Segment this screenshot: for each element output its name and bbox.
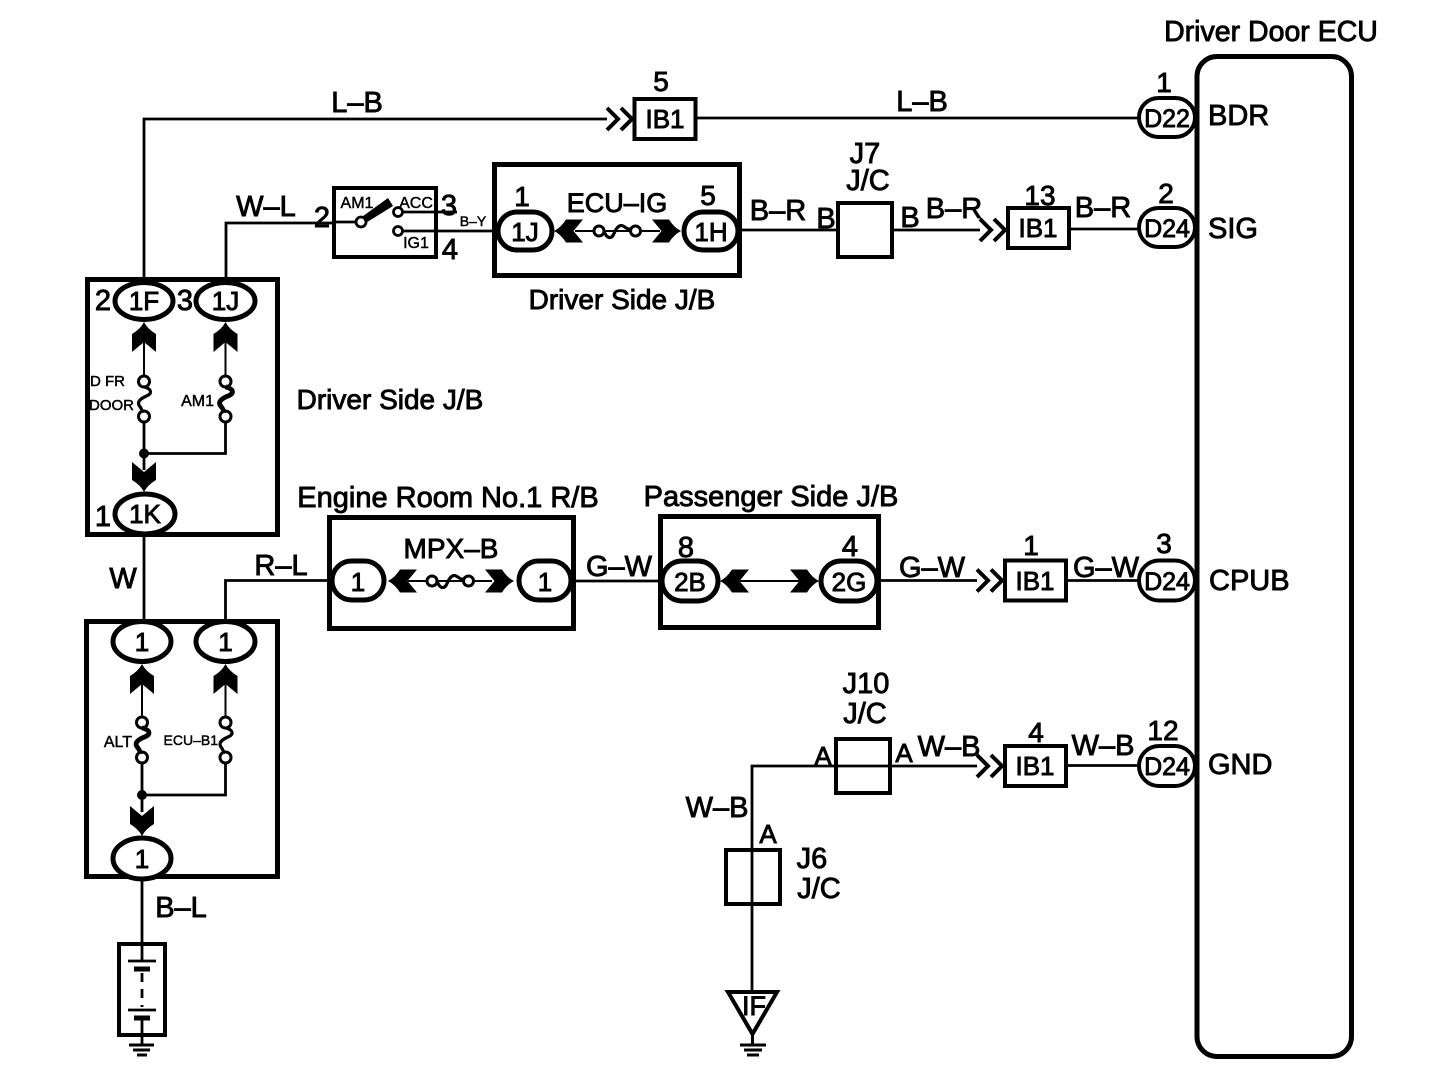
connector 1J xyxy=(498,212,552,250)
fuse ECU-IG arrow right xyxy=(652,220,681,243)
wire through J6 xyxy=(751,850,754,904)
wire ECU-B1 fuse down and left xyxy=(144,763,226,795)
svg-text:1: 1 xyxy=(95,501,111,533)
connector IB1 (1) xyxy=(1005,561,1066,601)
fuse MPX-B arrow right xyxy=(485,570,514,593)
svg-text:A: A xyxy=(814,741,832,771)
wire through J10 xyxy=(836,765,890,768)
wire J6 to shield ground xyxy=(751,904,754,994)
arrow right at 2G xyxy=(790,570,819,593)
connector IB1 (5) xyxy=(635,99,696,139)
connector 1 upper-right xyxy=(196,622,255,662)
svg-text:MPX–B: MPX–B xyxy=(404,533,499,564)
svg-text:1J: 1J xyxy=(511,217,538,247)
battery top lead xyxy=(141,944,144,961)
arrow up under 1F xyxy=(132,322,156,352)
svg-text:2: 2 xyxy=(1158,178,1174,209)
wire B-L xyxy=(141,879,144,944)
arrow up under 1J xyxy=(214,322,238,352)
svg-text:CPUB: CPUB xyxy=(1209,565,1290,597)
svg-text:G–W: G–W xyxy=(899,552,966,584)
ignition switch box xyxy=(334,188,436,257)
connector 1F xyxy=(115,283,173,320)
svg-text:1: 1 xyxy=(135,627,149,657)
wire left arrow to ALT fuse xyxy=(141,669,143,716)
fuse ECU-IG arrow left xyxy=(554,220,583,243)
svg-text:D FR: D FR xyxy=(90,373,125,390)
svg-text:5: 5 xyxy=(700,180,716,211)
svg-text:4: 4 xyxy=(442,234,458,266)
switch lever xyxy=(359,198,393,224)
svg-text:W–L: W–L xyxy=(236,191,296,223)
svg-text:D22: D22 xyxy=(1144,105,1190,133)
svg-text:AM1: AM1 xyxy=(181,393,214,410)
ECU box xyxy=(1197,57,1352,1057)
connector 1 left xyxy=(332,561,384,600)
svg-text:R–L: R–L xyxy=(254,550,307,582)
wire corner to J10 xyxy=(752,766,836,848)
arrow up under left 1 xyxy=(130,664,154,694)
svg-text:1: 1 xyxy=(1023,530,1039,561)
ground stem xyxy=(751,1034,754,1045)
pin 4 wire to 1J xyxy=(403,230,499,233)
wire fuse to junction xyxy=(143,422,146,470)
svg-text:1: 1 xyxy=(538,567,552,597)
fuse AM1 xyxy=(220,376,233,422)
svg-text:1H: 1H xyxy=(694,217,727,247)
battery plate long 1 xyxy=(128,960,156,963)
svg-text:IG1: IG1 xyxy=(403,235,429,252)
battery plate short 1 xyxy=(134,967,150,972)
connector 2B xyxy=(662,561,718,601)
svg-text:BDR: BDR xyxy=(1208,100,1269,132)
wire 1F arrow to fuse xyxy=(143,327,145,377)
svg-text:AM1: AM1 xyxy=(341,195,374,212)
arrow down to 1 xyxy=(130,806,154,836)
svg-text:DOOR: DOOR xyxy=(89,397,134,414)
svg-text:3: 3 xyxy=(1156,528,1172,559)
connector 1K xyxy=(115,494,175,534)
svg-text:ECU–IG: ECU–IG xyxy=(567,188,668,218)
svg-text:1: 1 xyxy=(218,627,232,657)
fuse MPX-B xyxy=(427,575,474,587)
svg-text:A: A xyxy=(895,738,913,768)
Engine Room No.1 R/B box xyxy=(330,518,574,629)
arrow down to 1K xyxy=(132,462,156,492)
wire R-L xyxy=(226,581,333,622)
svg-text:1J: 1J xyxy=(212,286,239,316)
svg-text:J/C: J/C xyxy=(843,698,887,730)
svg-text:B–Y: B–Y xyxy=(460,213,487,229)
fuse ECU-B1 xyxy=(220,717,232,763)
svg-text:SIG: SIG xyxy=(1208,213,1258,245)
wire between 2B and 2G xyxy=(740,580,800,582)
svg-text:D24: D24 xyxy=(1144,753,1190,781)
ground symbol IF xyxy=(740,1045,766,1055)
arrow left at 2B xyxy=(720,570,749,593)
wire right arrow to ECU-B1 fuse xyxy=(225,669,227,716)
svg-text:ECU–B1: ECU–B1 xyxy=(164,732,219,748)
wire L-B left vertical xyxy=(144,119,607,283)
switch wire to pivot xyxy=(334,221,360,224)
wire IB1 to D24 xyxy=(1066,764,1141,767)
svg-text:A: A xyxy=(759,819,777,849)
switch pivot contact xyxy=(356,217,366,227)
svg-text:5: 5 xyxy=(653,66,669,97)
svg-text:B–R: B–R xyxy=(750,195,806,227)
fuse MPX-B wire xyxy=(408,580,492,582)
connector IB1 (13) xyxy=(1008,208,1069,248)
chevron arrow xyxy=(607,108,632,130)
ground symbol battery xyxy=(129,1045,154,1055)
wire to Passenger J/B xyxy=(571,580,662,583)
svg-text:W: W xyxy=(109,563,137,595)
svg-text:D24: D24 xyxy=(1144,568,1190,596)
svg-text:ACC: ACC xyxy=(399,195,433,212)
svg-text:L–B: L–B xyxy=(896,86,948,118)
connector D22 xyxy=(1139,98,1195,137)
wire 1H to J7 xyxy=(738,229,838,232)
svg-text:12: 12 xyxy=(1147,715,1178,746)
svg-text:Engine Room No.1 R/B: Engine Room No.1 R/B xyxy=(297,482,598,514)
svg-text:1: 1 xyxy=(1156,67,1172,98)
connector D24 CPUB xyxy=(1139,561,1195,601)
svg-text:2: 2 xyxy=(95,285,111,317)
wire IB1 to D24 xyxy=(1066,579,1141,582)
svg-text:1: 1 xyxy=(135,844,149,874)
svg-text:Driver Side J/B: Driver Side J/B xyxy=(297,384,484,415)
chevron arrow xyxy=(977,570,1002,592)
svg-text:B–R: B–R xyxy=(1075,192,1131,224)
battery box xyxy=(119,944,165,1035)
svg-text:GND: GND xyxy=(1208,749,1272,781)
connector 1 bottom xyxy=(113,838,171,879)
wire J7 to IB1 xyxy=(892,229,980,232)
svg-text:B–R: B–R xyxy=(926,193,982,225)
wire AM1 fuse down and left xyxy=(146,422,226,454)
svg-text:IF: IF xyxy=(742,991,766,1021)
battery bottom lead xyxy=(141,1018,144,1044)
svg-text:G–W: G–W xyxy=(586,551,653,583)
fuse MPX-B arrow left xyxy=(388,570,417,593)
switch IG1 contact xyxy=(394,227,403,236)
svg-text:3: 3 xyxy=(441,190,457,222)
svg-text:Passenger Side J/B: Passenger Side J/B xyxy=(644,481,899,513)
svg-text:W–B: W–B xyxy=(686,792,749,824)
fuse ECU-IG xyxy=(594,225,641,237)
svg-text:3: 3 xyxy=(177,285,193,317)
svg-text:G–W: G–W xyxy=(1073,552,1140,584)
connector 2G xyxy=(821,561,877,601)
wire ALT fuse to junction xyxy=(141,763,144,812)
connector D24 SIG xyxy=(1139,208,1195,247)
junction block J6 xyxy=(726,850,780,904)
wire W from 1K down xyxy=(143,534,146,623)
svg-text:L–B: L–B xyxy=(331,87,383,119)
svg-text:Driver Side J/B: Driver Side J/B xyxy=(529,284,716,315)
svg-text:1: 1 xyxy=(514,181,530,212)
svg-text:4: 4 xyxy=(842,531,858,563)
svg-text:Driver Door ECU: Driver Door ECU xyxy=(1164,16,1378,48)
wire W-L xyxy=(226,223,334,283)
svg-text:B: B xyxy=(816,203,835,235)
battery plate long 2 xyxy=(128,1009,156,1012)
svg-text:4: 4 xyxy=(1028,717,1044,748)
svg-text:IB1: IB1 xyxy=(1018,213,1057,243)
lower J/B box xyxy=(87,622,278,877)
svg-text:W–B: W–B xyxy=(1072,730,1135,762)
connector 1 upper-left xyxy=(113,622,171,662)
connector 1 right xyxy=(519,561,571,600)
svg-text:J/C: J/C xyxy=(797,873,841,905)
shield ground triangle IF xyxy=(728,992,777,1034)
junction dot xyxy=(139,449,149,459)
connector IB1 (4) xyxy=(1005,746,1066,786)
Passenger Side J/B box xyxy=(661,517,879,628)
wire IB1 to D24 xyxy=(1069,228,1141,231)
svg-text:ALT: ALT xyxy=(104,734,132,751)
fuse ALT xyxy=(136,717,149,763)
svg-text:J10: J10 xyxy=(843,668,890,700)
battery dashed link xyxy=(141,973,144,1007)
wire 2G to IB1 xyxy=(877,579,977,582)
chevron arrow xyxy=(977,755,1002,777)
svg-text:1K: 1K xyxy=(129,499,161,529)
svg-text:1: 1 xyxy=(351,567,365,597)
svg-text:2: 2 xyxy=(314,202,330,234)
junction block J10 xyxy=(836,739,890,793)
wire J10 to IB1 xyxy=(890,765,977,768)
battery plate short 2 xyxy=(134,1016,150,1021)
chevron arrow xyxy=(980,219,1005,241)
svg-text:2B: 2B xyxy=(674,567,706,597)
svg-text:J6: J6 xyxy=(797,843,828,875)
connector D24 GND xyxy=(1139,746,1195,786)
svg-text:W–B: W–B xyxy=(918,731,981,763)
svg-text:IB1: IB1 xyxy=(645,104,684,134)
junction block J7 xyxy=(838,203,892,257)
fuse ECU-IG wire xyxy=(575,230,660,232)
svg-text:IB1: IB1 xyxy=(1015,566,1054,596)
Driver Side J/B box (ECU-IG) xyxy=(495,165,740,276)
connector 1H xyxy=(684,212,738,250)
svg-text:IB1: IB1 xyxy=(1015,751,1054,781)
connector 1J oval xyxy=(196,283,255,320)
junction dot xyxy=(137,790,147,800)
switch ACC contact xyxy=(394,208,403,217)
pin 3 wire xyxy=(403,211,458,214)
svg-text:1F: 1F xyxy=(129,286,159,316)
svg-text:B–L: B–L xyxy=(155,892,207,924)
arrow up under right 1 xyxy=(214,664,238,694)
svg-text:J/C: J/C xyxy=(846,165,890,197)
svg-text:D24: D24 xyxy=(1144,215,1190,243)
Driver Side J/B box xyxy=(88,280,278,535)
svg-text:2G: 2G xyxy=(832,567,867,597)
wire 1J arrow to fuse xyxy=(225,327,227,377)
fuse D FR DOOR xyxy=(138,376,150,422)
wire L-B right xyxy=(696,117,1140,120)
